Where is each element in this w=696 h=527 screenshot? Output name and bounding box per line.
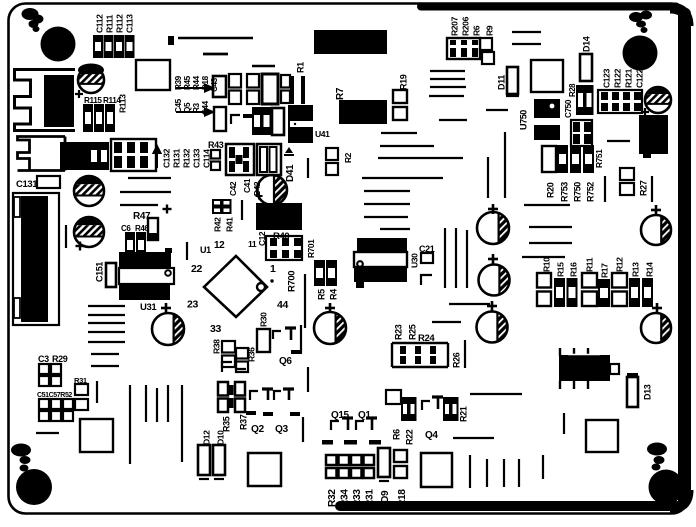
connector J1: [15, 70, 76, 131]
resistor network R23-R25: [392, 342, 448, 344]
wire: [300, 325, 302, 353]
black pad: [344, 440, 357, 445]
resistor R41 body: [223, 200, 231, 206]
resistor R112: [115, 36, 123, 57]
plus mark: [641, 111, 649, 113]
module M3: [639, 115, 668, 154]
resistor R115: [84, 105, 92, 131]
capacitor C6 body: [126, 233, 134, 257]
svg-text:C112: C112: [94, 14, 104, 33]
svg-text:R752: R752: [585, 182, 595, 202]
transistor Q3 bar: [283, 387, 294, 390]
wire: [512, 31, 541, 33]
capacitor C115: [78, 64, 104, 77]
capacitor C112: [94, 36, 102, 57]
transistor Q6 bracket: [273, 331, 281, 339]
resistor R35 R37 block: [218, 382, 228, 396]
black pad: [246, 411, 256, 415]
wire: [604, 176, 606, 202]
svg-text:R132: R132: [181, 148, 191, 168]
resistor R5 body: [315, 261, 324, 285]
wire: [145, 385, 147, 422]
resistor R32 body: [326, 455, 337, 465]
svg-text:R6: R6: [471, 25, 481, 36]
resistor R114: [95, 105, 103, 131]
svg-text:R29: R29: [52, 354, 68, 364]
wire: [88, 314, 125, 316]
svg-text:12: 12: [214, 240, 225, 251]
resistor R207 body: [447, 38, 480, 59]
power block notch: [14, 197, 20, 217]
wire: [380, 145, 434, 147]
resistor R36 body: [236, 348, 248, 359]
capacitor block C132-C114 body: [111, 139, 156, 171]
svg-text:23: 23: [187, 299, 198, 311]
wire: [96, 381, 98, 403]
capacitor C42 block: [226, 144, 254, 175]
capacitor C12 block: [266, 236, 302, 260]
fiducial blob top-right: [629, 12, 643, 22]
svg-text:U1: U1: [200, 245, 211, 255]
wire: [378, 157, 463, 159]
wire: [88, 341, 125, 343]
module M1: [314, 30, 387, 54]
resistor R31 body: [364, 455, 375, 465]
resistor R47 body: [148, 218, 158, 240]
svg-text:R18: R18: [397, 489, 408, 507]
capacitor C113: [126, 36, 134, 57]
resistor R1 body: [290, 76, 294, 104]
diode D14 body: [580, 54, 592, 81]
capacitor C3 body: [39, 364, 49, 374]
transistor Q1 bar: [366, 416, 377, 419]
wire: [364, 203, 410, 205]
wire: [65, 225, 67, 248]
svg-text:R43: R43: [208, 140, 224, 150]
svg-text:U30: U30: [409, 253, 419, 268]
svg-text:U31: U31: [140, 302, 157, 313]
svg-text:R7: R7: [335, 87, 346, 100]
black pad: [263, 412, 273, 416]
resistor R3: [263, 108, 271, 134]
wire: [302, 417, 304, 442]
svg-text:R12: R12: [614, 257, 624, 272]
wire: [430, 78, 465, 80]
transistor Q5: [231, 115, 240, 124]
resistor R9 body: [480, 38, 492, 50]
resistor R38 body: [222, 341, 235, 353]
plus mark: [161, 307, 171, 310]
resistor R22 body: [410, 398, 416, 420]
wire: [307, 158, 309, 178]
wire: [120, 204, 158, 206]
wire: [432, 321, 461, 323]
wire: [444, 228, 446, 288]
svg-text:R206: R206: [460, 16, 470, 36]
svg-text:R27: R27: [638, 180, 648, 196]
wire: [504, 132, 506, 198]
svg-text:D14: D14: [581, 36, 591, 52]
svg-text:R32: R32: [327, 489, 338, 507]
plus mark: [163, 208, 172, 210]
svg-text:C42: C42: [228, 181, 238, 196]
resistor R2 body: [326, 148, 338, 160]
thick right border bar: [678, 14, 691, 500]
wire: [381, 132, 417, 134]
svg-text:R31: R31: [364, 489, 375, 507]
thick top border bar: [421, 3, 676, 11]
svg-text:R33: R33: [352, 489, 363, 507]
resistor R13 body: [630, 279, 639, 306]
transistor Q4 bar: [432, 395, 443, 398]
label arrow C132 block: [154, 146, 161, 168]
transistor Q15 bracket: [331, 421, 339, 430]
svg-text:Q6: Q6: [279, 356, 292, 367]
transistor Q750 pins2: [559, 381, 561, 389]
resistor R4 body: [327, 261, 336, 285]
black pad: [290, 412, 300, 416]
resistor R39: [281, 75, 290, 88]
svg-text:R750: R750: [572, 182, 582, 202]
wire: [522, 256, 565, 258]
svg-text:33: 33: [210, 323, 221, 335]
component bracket: [421, 275, 432, 285]
diode D17: [272, 108, 284, 135]
resistor R42 body: [213, 200, 221, 206]
wire: [128, 177, 171, 179]
power block P1 body: [21, 196, 48, 322]
wire: [181, 385, 183, 462]
plus mark: [256, 195, 263, 197]
resistor R45: [247, 74, 259, 88]
resistor R750 body: [571, 146, 580, 172]
resistor R31b body: [75, 384, 88, 395]
svg-text:R37: R37: [238, 414, 248, 430]
wire: [470, 393, 522, 395]
svg-text:R11: R11: [584, 257, 594, 272]
black pad: [322, 440, 333, 445]
resistor R27 body: [620, 168, 634, 180]
svg-text:R115: R115: [84, 96, 102, 105]
transistor Q15 bar: [342, 416, 353, 419]
wire: [529, 226, 572, 228]
component U40 outline: [136, 60, 170, 90]
resistor R33 body: [351, 455, 362, 465]
capacitor C43: [213, 76, 226, 97]
wire: [241, 200, 243, 220]
svg-text:R111: R111: [104, 14, 114, 33]
svg-text:R17: R17: [599, 263, 609, 278]
transistor Q1 bracket: [356, 421, 364, 430]
resistor R14 body: [643, 279, 652, 306]
diode D13 body: [627, 377, 638, 407]
wire: [364, 216, 408, 218]
wire: [542, 455, 544, 479]
svg-text:R21: R21: [458, 406, 468, 422]
plus mark: [652, 307, 662, 310]
svg-text:R207: R207: [449, 16, 459, 36]
diode D9 body: [378, 448, 390, 477]
svg-text:R4: R4: [328, 289, 338, 300]
svg-text:R122: R122: [612, 68, 622, 88]
resistor R20 body: [542, 146, 556, 172]
transistor Q2 bar: [262, 387, 273, 390]
plus mark: [76, 245, 85, 247]
resistor R752 body: [584, 146, 593, 172]
resistor R113b: [106, 105, 114, 131]
svg-text:U750: U750: [518, 110, 528, 130]
svg-text:D11: D11: [496, 75, 506, 90]
wire: [186, 242, 188, 260]
mount hole top-right: [623, 36, 658, 71]
wire: [464, 340, 466, 368]
svg-text:R28: R28: [568, 83, 577, 97]
capacitor C21 body: [421, 253, 433, 263]
svg-text:R751: R751: [594, 149, 604, 168]
component U33 outline: [248, 453, 281, 486]
resistor R6 body: [402, 398, 408, 420]
svg-text:Q2: Q2: [251, 424, 265, 435]
plus mark: [488, 208, 498, 211]
fiducial blob bottom-right: [647, 443, 667, 456]
svg-text:R34: R34: [339, 489, 350, 507]
wire: [439, 119, 467, 121]
svg-text:R25: R25: [407, 324, 417, 340]
svg-text:Q3: Q3: [275, 424, 289, 435]
svg-text:C6: C6: [121, 224, 131, 233]
svg-text:22: 22: [191, 263, 202, 275]
resistor R28 body: [577, 86, 584, 114]
svg-text:R1: R1: [295, 62, 305, 73]
wire: [167, 385, 169, 422]
fiducial blob top-left: [22, 8, 39, 20]
resistor R43 body: [211, 150, 220, 159]
capacitor C41 block: [257, 144, 281, 175]
svg-text:R9: R9: [484, 25, 494, 36]
mount hole bottom-left: [16, 469, 52, 505]
svg-text:R10: R10: [541, 257, 551, 272]
wire: [203, 53, 228, 56]
svg-text:11: 11: [248, 239, 257, 249]
wire: [455, 228, 457, 288]
power block P1 outline: [13, 193, 59, 325]
svg-text:R131: R131: [171, 148, 181, 168]
svg-text:R23: R23: [393, 324, 403, 340]
svg-text:C123: C123: [601, 68, 611, 88]
resistor R12 body: [612, 273, 627, 288]
wire: [156, 388, 158, 422]
wire: [430, 70, 465, 72]
wire: [469, 455, 471, 488]
bracket: [222, 362, 232, 372]
resistor R44: [229, 74, 241, 88]
svg-text:D9: D9: [380, 490, 391, 503]
transistor Q6 bar: [285, 326, 296, 329]
component U35 outline: [586, 420, 618, 452]
svg-text:R22: R22: [404, 429, 414, 445]
capacitor C151 body: [106, 263, 116, 287]
svg-text:U41: U41: [315, 129, 330, 139]
svg-text:R35: R35: [221, 416, 231, 432]
svg-text:R13: R13: [630, 262, 640, 277]
svg-text:C133: C133: [191, 148, 201, 168]
svg-text:D12: D12: [201, 430, 211, 445]
wire: [503, 459, 505, 487]
wire: [466, 230, 468, 288]
svg-text:R121: R121: [623, 68, 633, 88]
wire: [524, 204, 570, 206]
transistor Q3 bracket: [274, 391, 281, 400]
capacitor C57 body: [51, 399, 61, 409]
svg-text:R26: R26: [451, 352, 461, 368]
wire: [364, 190, 410, 192]
wire: [380, 228, 410, 230]
resistor R34 body: [339, 455, 350, 465]
IC U1 body: [204, 256, 267, 317]
plus mark: [651, 209, 661, 212]
resistor R19 body: [393, 90, 407, 103]
svg-text:Q4: Q4: [425, 430, 438, 441]
diode D10 body: [213, 445, 225, 475]
svg-text:C41: C41: [242, 178, 252, 193]
wire: [453, 437, 494, 439]
svg-text:R113: R113: [117, 94, 127, 113]
wire: [429, 95, 464, 97]
black pad: [369, 440, 381, 445]
svg-text:R753: R753: [559, 182, 569, 202]
wire: [36, 432, 59, 434]
svg-text:R16: R16: [568, 262, 578, 277]
resistor R10 body: [537, 273, 551, 288]
black pad: [347, 439, 349, 441]
svg-text:R5: R5: [316, 289, 326, 300]
diode D11 body: [507, 67, 518, 94]
wire: [304, 274, 306, 328]
diode D12 body: [198, 445, 210, 475]
svg-text:R42: R42: [212, 217, 222, 232]
resistor R111: [105, 36, 113, 57]
resistor R29 body: [51, 364, 61, 374]
wire: [607, 140, 630, 142]
svg-text:R2: R2: [343, 152, 353, 163]
connector J2: [18, 137, 66, 171]
resistor R17 body: [599, 280, 609, 306]
component U34 outline: [421, 453, 452, 487]
node arrow: [176, 85, 213, 92]
wire: [120, 191, 171, 193]
svg-text:C3: C3: [38, 354, 49, 364]
plus mark: [488, 258, 498, 261]
svg-text:R15: R15: [555, 262, 565, 277]
wire: [91, 365, 119, 367]
component outline: [386, 390, 401, 404]
svg-text:R700: R700: [287, 271, 298, 292]
svg-text:C750: C750: [564, 99, 573, 118]
IC U31: [119, 252, 171, 268]
resistor R16 body: [568, 279, 577, 306]
wire: [252, 65, 275, 67]
bracket: [236, 355, 246, 369]
svg-text:D13: D13: [642, 384, 652, 400]
plus mark: [325, 307, 335, 310]
capacitor C123 block: [598, 90, 642, 113]
svg-text:C151: C151: [94, 262, 104, 282]
diode D41 symbol: [285, 147, 293, 153]
capacitor C45: [253, 108, 261, 134]
svg-text:44: 44: [277, 299, 288, 311]
wire: [449, 303, 490, 305]
black pad: [291, 350, 302, 354]
svg-text:C113: C113: [124, 14, 134, 33]
resistor R30 body: [257, 329, 270, 352]
resistor R15 body: [555, 279, 564, 306]
svg-text:R20: R20: [545, 182, 555, 198]
svg-text:R38: R38: [211, 339, 221, 354]
transistor Q750 body: [559, 355, 610, 381]
IC U30: [357, 238, 407, 252]
resistor R46 body: [137, 233, 145, 257]
svg-text:D10: D10: [215, 430, 225, 445]
transistor Q750 pins: [559, 348, 561, 356]
wire: [307, 367, 309, 392]
plus mark: [75, 93, 83, 95]
module M2: [339, 100, 387, 124]
wire: [430, 86, 466, 88]
svg-text:R19: R19: [398, 74, 408, 90]
diode D18: [262, 74, 278, 104]
capacitor C44: [214, 107, 226, 131]
mount hole top-left: [41, 27, 76, 62]
mount hole bottom-right: [649, 470, 684, 505]
resistor pack RP1: [90, 143, 98, 169]
component U52 outline: [531, 60, 563, 92]
svg-text:R112: R112: [114, 14, 124, 33]
svg-text:C114: C114: [201, 149, 211, 168]
plus mark: [487, 305, 497, 308]
wire: [91, 353, 119, 355]
svg-text:D41: D41: [285, 164, 296, 182]
svg-text:C132: C132: [161, 148, 171, 168]
wire: [518, 459, 520, 487]
wire: [651, 176, 653, 202]
wire: [563, 413, 565, 434]
wire: [178, 37, 253, 39]
svg-text:1: 1: [270, 263, 276, 275]
wire: [129, 385, 131, 464]
wire: [362, 177, 443, 179]
IC U41: [288, 105, 313, 143]
IC Q750: [534, 99, 560, 118]
resistor R753 body: [558, 146, 567, 172]
resistor R11 body: [582, 273, 597, 288]
svg-text:C43: C43: [210, 77, 219, 92]
wire: [88, 322, 125, 324]
svg-text:C45: C45: [174, 98, 183, 113]
resistor R21 body: [444, 398, 450, 420]
resistor R52 body: [63, 399, 73, 409]
transistor Q2 bracket: [250, 391, 258, 400]
wire: [529, 242, 572, 244]
black module K1: [60, 142, 90, 170]
fiducial blob bottom-left: [11, 444, 31, 457]
svg-text:R14: R14: [644, 262, 654, 277]
regulator VR40 body: [256, 203, 302, 230]
svg-text:R30: R30: [258, 312, 268, 327]
wire: [486, 459, 488, 487]
transistor Q4 bracket: [422, 401, 430, 410]
wire: [487, 157, 489, 198]
svg-text:C131: C131: [16, 179, 38, 190]
